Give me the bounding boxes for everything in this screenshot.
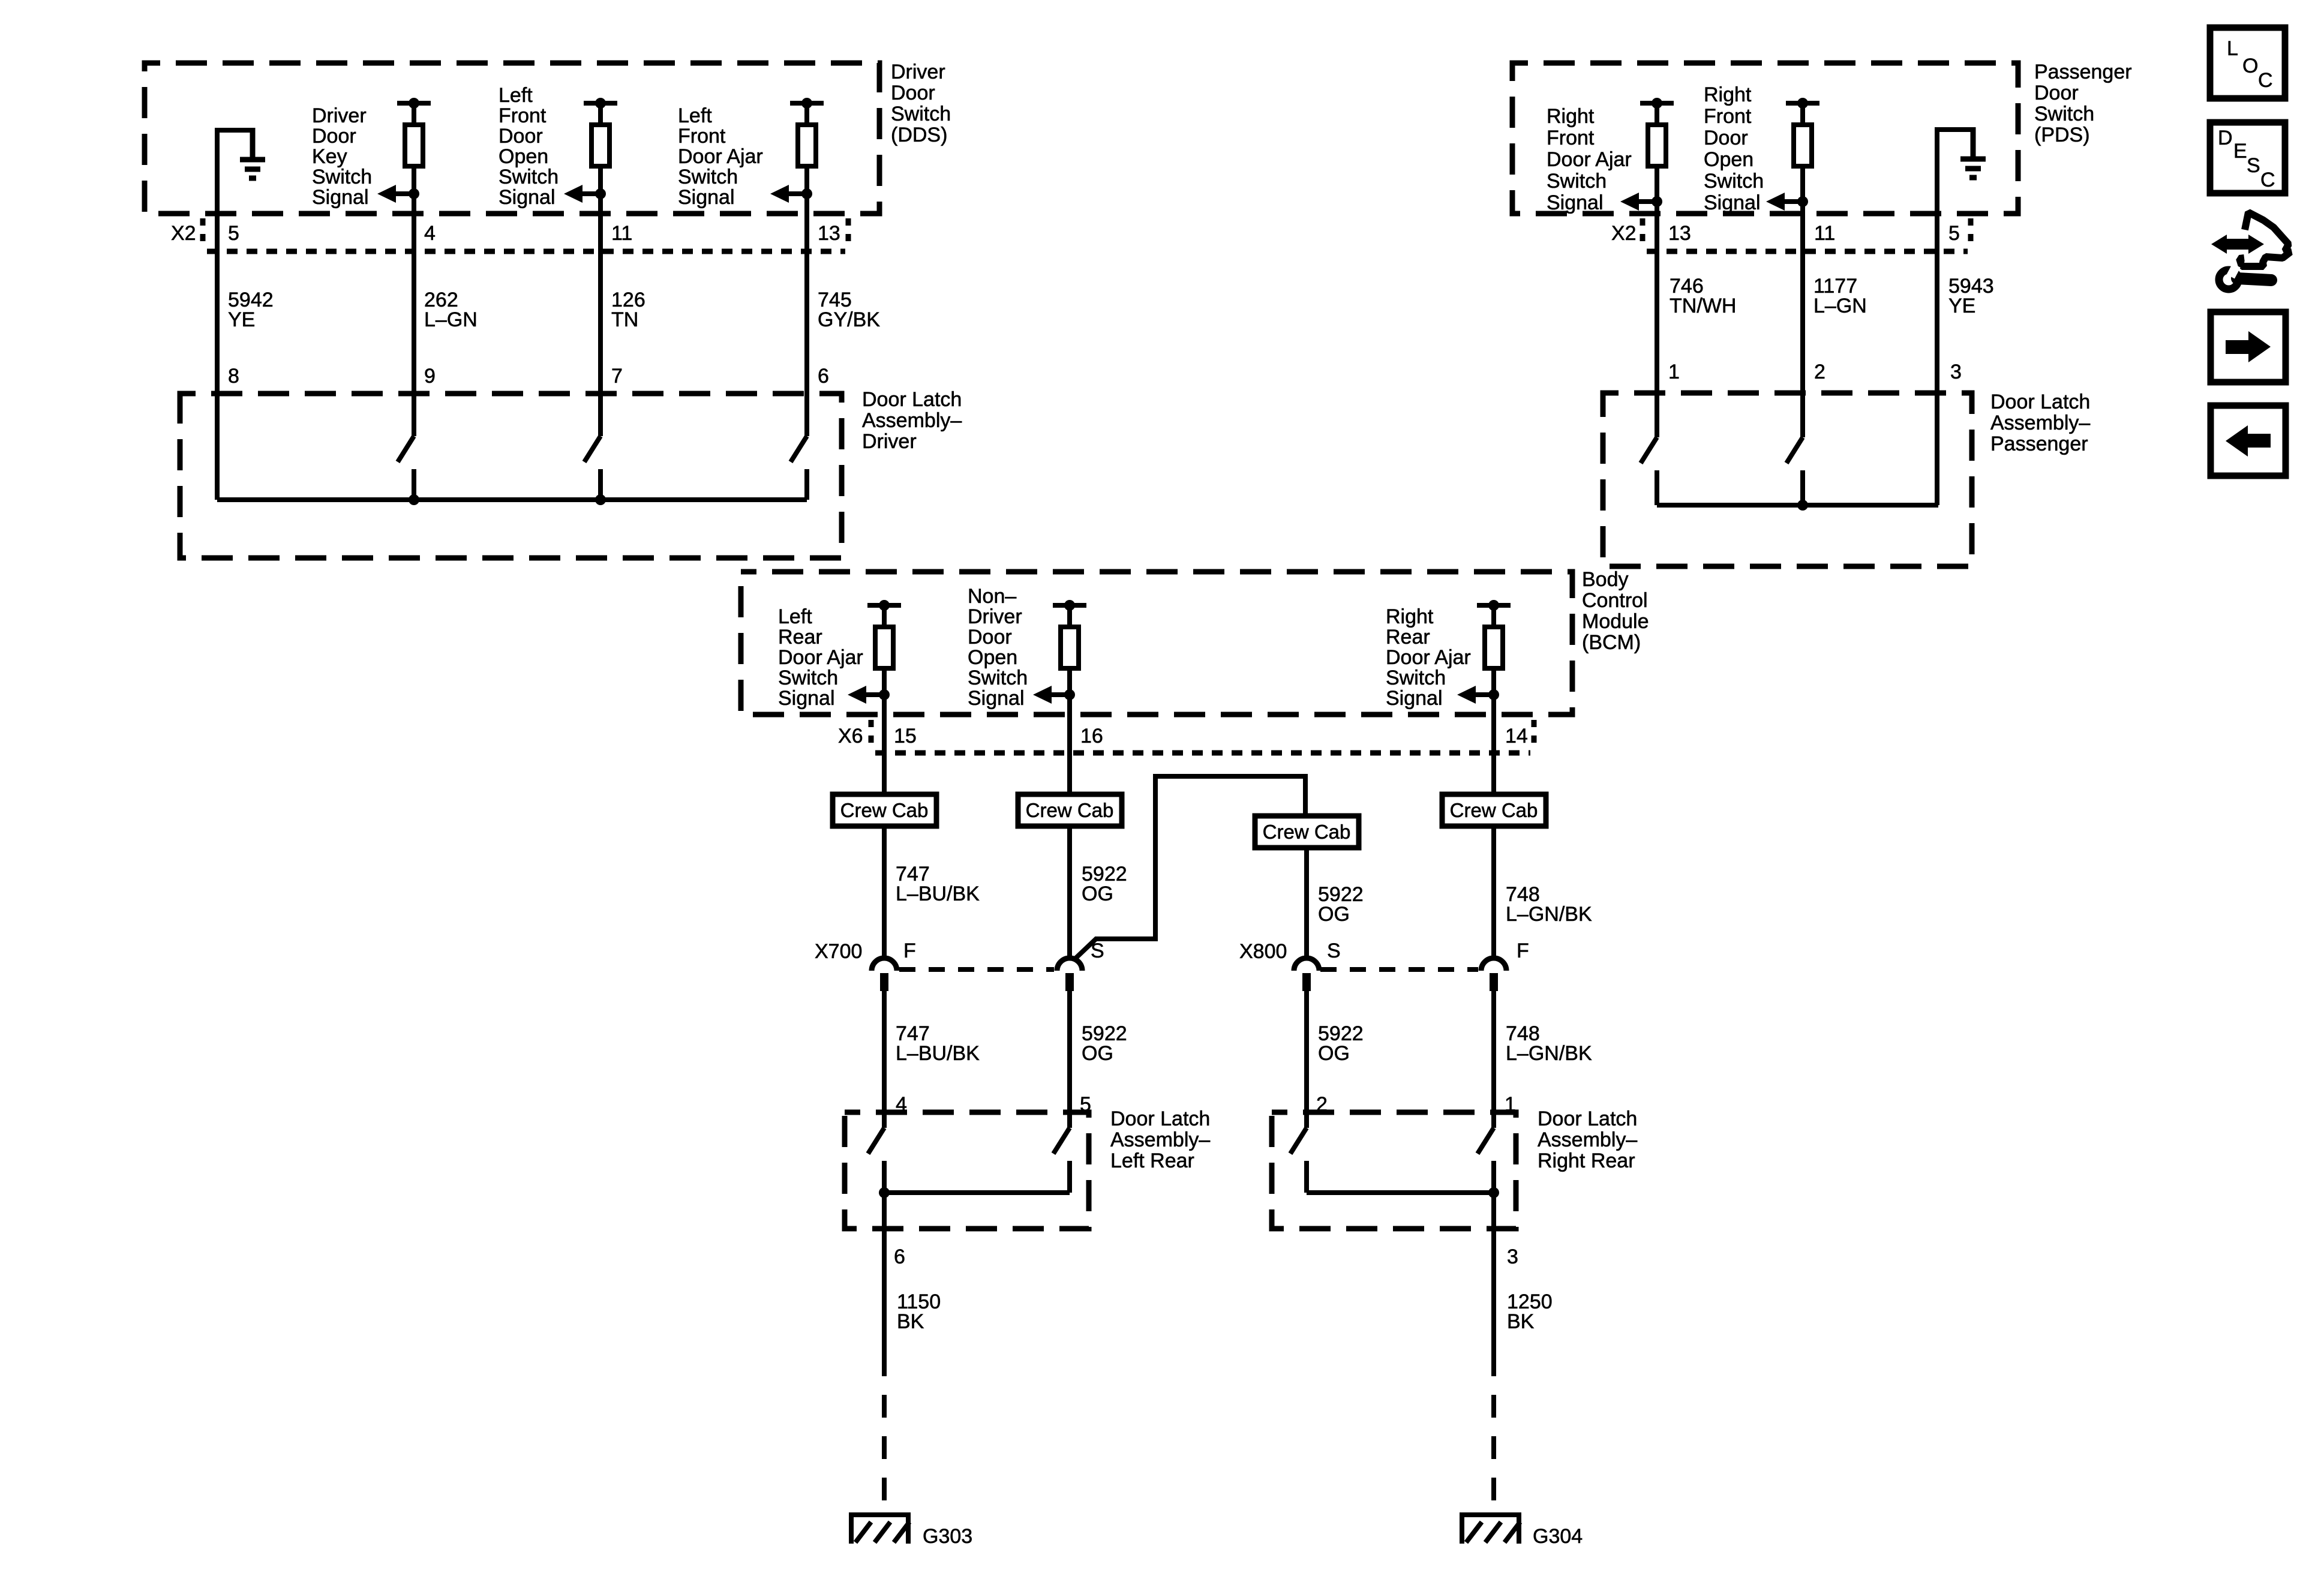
connector X800 dashed link	[1320, 967, 1478, 972]
wire BCM pin 15 down	[882, 667, 887, 794]
pin 5 left rear latch	[1080, 1093, 1091, 1116]
Door Latch Assembly-Passenger box	[1603, 393, 1972, 566]
svg-text:Switch: Switch	[678, 166, 738, 188]
switch left front door open	[584, 436, 600, 500]
resistor right front door open switch	[1786, 98, 1819, 166]
pin S X700	[1091, 939, 1104, 962]
bus left rear latch	[884, 1190, 1070, 1195]
label wire 1250 BK	[1507, 1290, 1553, 1333]
label wire 5922 OG right	[1318, 883, 1364, 926]
resistor driver door key switch	[397, 98, 431, 166]
svg-text:C: C	[2260, 169, 2275, 191]
svg-text:Right: Right	[1547, 105, 1595, 128]
label Driver Door Switch (DDS)	[891, 61, 951, 146]
Crew Cab box 4	[1442, 794, 1546, 826]
ground G303	[849, 1515, 911, 1544]
svg-text:Crew Cab: Crew Cab	[1263, 821, 1351, 843]
junction left rear latch bus	[879, 1187, 890, 1198]
svg-text:BK: BK	[897, 1310, 924, 1333]
arrow right rear door ajar switch signal	[1457, 686, 1499, 704]
pin 6 driver latch	[818, 365, 829, 388]
arrow left front door ajar switch signal	[770, 185, 812, 203]
svg-text:F: F	[1517, 939, 1529, 962]
Crew Cab box 1	[833, 794, 936, 826]
svg-text:BK: BK	[1507, 1310, 1535, 1333]
svg-text:F: F	[903, 939, 916, 962]
Crew Cab box 2	[1018, 794, 1122, 826]
svg-text:Assembly–: Assembly–	[1110, 1128, 1210, 1151]
svg-text:G304: G304	[1533, 1525, 1583, 1548]
legend icon arrow left	[2211, 406, 2286, 476]
svg-text:X6: X6	[838, 725, 863, 748]
label connector X2 passenger	[1611, 222, 1637, 245]
svg-text:Switch: Switch	[1386, 667, 1446, 689]
svg-text:Door Ajar: Door Ajar	[1386, 646, 1471, 669]
svg-text:Rear: Rear	[778, 626, 822, 649]
label Left Front Door Open Switch Signal	[499, 84, 559, 209]
junction right rear latch bus	[1488, 1187, 1499, 1198]
svg-text:Open: Open	[499, 145, 548, 168]
svg-text:Rear: Rear	[1386, 626, 1430, 649]
arrow non-driver door open switch signal	[1033, 686, 1075, 704]
svg-text:Passenger: Passenger	[2034, 61, 2132, 83]
svg-text:Switch: Switch	[1704, 170, 1764, 193]
svg-text:Door Ajar: Door Ajar	[678, 145, 763, 168]
svg-text:X2: X2	[1611, 222, 1637, 245]
pin S X800	[1327, 939, 1341, 962]
label wire 747 L-BU/BK lower	[896, 1022, 980, 1065]
wire pin 5 PDS to ground jog	[1935, 130, 1939, 505]
arrow left rear door ajar switch signal	[848, 686, 890, 704]
label wire 5943 YE	[1948, 275, 1994, 317]
pin 3 passenger latch	[1950, 361, 1962, 383]
switch left rear door ajar	[868, 1128, 884, 1193]
label wire 1177 L-GN	[1813, 275, 1867, 317]
pin F X800	[1517, 939, 1529, 962]
label wire 746 TN/WH	[1670, 275, 1736, 317]
svg-text:8: 8	[228, 365, 239, 388]
svg-text:Switch: Switch	[891, 103, 951, 125]
svg-text:O: O	[2242, 55, 2258, 77]
legend icon arrow right	[2211, 312, 2286, 382]
svg-text:3: 3	[1507, 1245, 1518, 1268]
svg-text:L–GN/BK: L–GN/BK	[1506, 903, 1592, 926]
label Door Latch Assembly-Left Rear	[1110, 1107, 1210, 1172]
wire PDS ground jog horizontal	[1935, 127, 1973, 132]
svg-text:Front: Front	[1547, 127, 1595, 149]
svg-text:Front: Front	[678, 125, 726, 148]
label wire 5922 OG lower right	[1318, 1022, 1364, 1065]
svg-text:S: S	[1091, 939, 1104, 962]
ground symbol PDS	[1960, 127, 1986, 178]
resistor left front door ajar switch	[790, 98, 824, 166]
svg-text:X700: X700	[815, 940, 862, 963]
svg-text:OG: OG	[1082, 882, 1113, 905]
label Body Control Module (BCM)	[1582, 568, 1649, 654]
wire branch 5922 OG from X700 S to Crew Cab 3	[1073, 776, 1305, 960]
label Passenger Door Switch (PDS)	[2034, 61, 2132, 146]
wire 748 crew cab to X800 F	[1491, 826, 1496, 958]
pin F X700	[903, 939, 916, 962]
svg-text:D: D	[2218, 127, 2233, 149]
svg-text:L: L	[2227, 37, 2238, 60]
svg-text:L–GN: L–GN	[424, 308, 478, 331]
svg-text:11: 11	[611, 222, 632, 245]
arrow right front door ajar switch signal	[1620, 193, 1662, 211]
pin 7	[611, 365, 623, 388]
label connector X800	[1239, 940, 1287, 963]
switch right front door ajar	[1641, 437, 1657, 505]
svg-text:Assembly–: Assembly–	[1990, 412, 2090, 434]
resistor left front door open switch	[584, 98, 617, 166]
connector X2 dotted line driver	[207, 249, 845, 254]
switch driver door key	[398, 436, 414, 500]
svg-text:Door Latch: Door Latch	[1990, 391, 2090, 413]
svg-text:Driver: Driver	[891, 61, 945, 83]
svg-text:Left: Left	[499, 84, 533, 107]
svg-text:Door Latch: Door Latch	[1110, 1107, 1210, 1130]
label Door Latch Assembly-Passenger	[1990, 391, 2090, 455]
connector X800 pin S	[1294, 958, 1319, 991]
Door Latch Assembly-Right Rear box	[1272, 1112, 1516, 1229]
svg-text:5: 5	[228, 222, 239, 245]
svg-text:Switch: Switch	[778, 667, 838, 689]
pin 13	[818, 222, 840, 245]
svg-text:OG: OG	[1318, 903, 1350, 926]
connector X800 pin F	[1481, 958, 1506, 991]
label Right Front Door Open Switch Signal	[1704, 83, 1764, 214]
pin 4	[424, 222, 436, 245]
connector X700 dashed link	[899, 967, 1054, 972]
switch right rear door ajar	[1478, 1128, 1494, 1193]
svg-text:Right: Right	[1704, 83, 1752, 106]
svg-text:Signal: Signal	[312, 186, 369, 209]
legend icon DESC	[2210, 122, 2285, 193]
resistor non-driver door open switch	[1053, 600, 1086, 668]
svg-text:Left: Left	[778, 605, 812, 628]
svg-text:Body: Body	[1582, 568, 1629, 591]
svg-text:Assembly–: Assembly–	[1538, 1128, 1637, 1151]
pin 5	[228, 222, 239, 245]
svg-text:Open: Open	[1704, 148, 1753, 171]
svg-text:Assembly–: Assembly–	[862, 409, 962, 432]
svg-text:Driver: Driver	[968, 605, 1022, 628]
svg-text:Switch: Switch	[1547, 170, 1607, 193]
svg-text:Driver: Driver	[312, 104, 367, 127]
svg-text:Crew Cab: Crew Cab	[1026, 799, 1114, 821]
label wire 745 GY/BK	[818, 289, 880, 331]
label G303	[923, 1525, 972, 1548]
junction driver latch bus at 1001	[595, 494, 606, 505]
svg-text:X800: X800	[1239, 940, 1287, 963]
wire BCM pin 16 down	[1067, 667, 1072, 794]
svg-text:G303: G303	[923, 1525, 972, 1548]
bracket X2 left	[200, 218, 206, 250]
switch left front door ajar	[791, 436, 807, 500]
BCM box (Body Control Module)	[741, 572, 1572, 715]
svg-text:C: C	[2258, 69, 2273, 92]
svg-text:Door Latch: Door Latch	[862, 388, 962, 411]
arrow left front door open switch signal	[564, 185, 606, 203]
pin 14	[1505, 725, 1528, 748]
svg-text:Right Rear: Right Rear	[1538, 1149, 1635, 1172]
wire 747 crew cab to X700 F	[882, 826, 887, 958]
svg-text:Non–: Non–	[968, 585, 1016, 608]
svg-text:Signal: Signal	[678, 186, 735, 209]
switch right rear door ajar right	[1290, 1128, 1307, 1193]
svg-text:(DDS): (DDS)	[891, 124, 947, 146]
svg-text:15: 15	[894, 725, 917, 748]
bracket X2 right	[846, 218, 851, 250]
svg-text:Switch: Switch	[2034, 103, 2094, 125]
pin 4 left rear latch	[896, 1093, 907, 1116]
pin 2 passenger latch	[1814, 361, 1825, 383]
svg-text:Switch: Switch	[499, 166, 559, 188]
svg-text:S: S	[2247, 154, 2260, 177]
pin 11 passenger	[1814, 222, 1835, 245]
label Non-Driver Door Open Switch Signal	[968, 585, 1028, 710]
svg-text:Passenger: Passenger	[1990, 433, 2088, 455]
svg-text:Door: Door	[968, 626, 1012, 649]
svg-text:OG: OG	[1318, 1042, 1350, 1065]
bracket X2 passenger right	[1968, 218, 1974, 250]
svg-text:Door: Door	[891, 82, 935, 104]
label connector X700	[815, 940, 862, 963]
label Left Rear Door Ajar Switch Signal	[778, 605, 863, 710]
wire 5922 X700 to left rear latch pin 5	[1067, 991, 1072, 1128]
svg-text:Signal: Signal	[968, 687, 1025, 710]
wire 748 X800 to right rear latch pin 1	[1491, 991, 1496, 1128]
switch non-driver door open left	[1053, 1128, 1070, 1193]
connector X2 dotted line passenger	[1647, 249, 1968, 254]
label Right Rear Door Ajar Switch Signal	[1386, 605, 1471, 710]
svg-text:Signal: Signal	[778, 687, 835, 710]
switch right front door open	[1786, 437, 1803, 505]
label G304	[1533, 1525, 1583, 1548]
label wire 5942 YE	[228, 289, 274, 331]
svg-text:4: 4	[424, 222, 436, 245]
label wire 748 L-GN/BK lower	[1506, 1022, 1592, 1065]
svg-text:GY/BK: GY/BK	[818, 308, 880, 331]
svg-text:Door: Door	[499, 125, 543, 148]
svg-text:(BCM): (BCM)	[1582, 631, 1641, 654]
svg-text:Open: Open	[968, 646, 1017, 669]
wire resistor to latch pin 7	[598, 164, 603, 436]
label Left Front Door Ajar Switch Signal	[678, 104, 763, 209]
label Door Latch Assembly-Right Rear	[1538, 1107, 1637, 1172]
bracket X2 passenger left	[1640, 218, 1646, 250]
svg-text:(PDS): (PDS)	[2034, 124, 2090, 146]
svg-text:6: 6	[818, 365, 829, 388]
pin 11	[611, 222, 632, 245]
svg-text:9: 9	[424, 365, 436, 388]
bus passenger latch	[1657, 503, 1938, 508]
pin 13 passenger	[1668, 222, 1691, 245]
svg-text:OG: OG	[1082, 1042, 1113, 1065]
svg-text:Crew Cab: Crew Cab	[840, 799, 929, 821]
wire 5922 crew cab to X700 S	[1067, 826, 1072, 958]
svg-text:7: 7	[611, 365, 623, 388]
svg-text:13: 13	[1668, 222, 1691, 245]
pin 5 passenger	[1948, 222, 1960, 245]
bracket X6 right	[1532, 720, 1537, 751]
wire BCM pin 14 down	[1491, 667, 1496, 794]
svg-text:X2: X2	[171, 222, 196, 245]
svg-text:Door: Door	[1704, 127, 1748, 149]
svg-text:Right: Right	[1386, 605, 1434, 628]
svg-text:TN: TN	[611, 308, 638, 331]
bracket X6 left	[869, 720, 874, 751]
svg-text:1: 1	[1668, 361, 1680, 383]
svg-text:5: 5	[1948, 222, 1960, 245]
svg-text:Door: Door	[2034, 82, 2079, 104]
label wire 748 L-GN/BK	[1506, 883, 1592, 926]
pin 3 right rear latch	[1507, 1245, 1518, 1268]
Door Latch Assembly-Left Rear box	[845, 1112, 1089, 1229]
wire 5922 X800 to right rear latch pin 2	[1304, 991, 1309, 1128]
svg-text:Switch: Switch	[968, 667, 1028, 689]
Door Latch Assembly-Driver box	[180, 394, 842, 558]
svg-text:YE: YE	[1948, 295, 1975, 317]
pin 1 passenger latch	[1668, 361, 1680, 383]
wire left rear latch pin 6 down	[882, 1193, 887, 1376]
junction passenger latch bus	[1797, 500, 1808, 511]
svg-text:13: 13	[818, 222, 840, 245]
svg-text:Door Ajar: Door Ajar	[778, 646, 863, 669]
arrow right front door open switch signal	[1766, 193, 1808, 211]
wire resistor to latch pin 9	[412, 164, 416, 436]
wire resistor to latch pin 1	[1655, 164, 1659, 437]
wire 1250 BK dashed to G304	[1491, 1395, 1496, 1515]
label Driver Door Key Switch Signal	[312, 104, 372, 209]
Crew Cab box 3 (branch)	[1255, 816, 1359, 848]
resistor right rear door ajar switch	[1477, 600, 1511, 668]
svg-text:Front: Front	[499, 104, 547, 127]
svg-text:16: 16	[1080, 725, 1103, 748]
svg-text:Signal: Signal	[1386, 687, 1443, 710]
arrow driver door key switch signal	[377, 185, 419, 203]
svg-text:3: 3	[1950, 361, 1962, 383]
svg-text:Key: Key	[312, 145, 347, 168]
pin 2 right rear latch	[1316, 1093, 1328, 1116]
wire 1150 BK dashed to G303	[882, 1395, 887, 1515]
resistor left rear door ajar switch	[867, 600, 901, 668]
bus driver latch	[217, 497, 807, 502]
svg-text:E: E	[2233, 140, 2247, 163]
pin 15	[894, 725, 917, 748]
label wire 747 L-BU/BK	[896, 863, 980, 905]
svg-text:Door Latch: Door Latch	[1538, 1107, 1637, 1130]
svg-text:L–BU/BK: L–BU/BK	[896, 882, 980, 905]
wire pin5 to ground jog	[215, 130, 220, 500]
svg-text:L–GN/BK: L–GN/BK	[1506, 1042, 1592, 1065]
svg-text:2: 2	[1814, 361, 1825, 383]
svg-text:Left: Left	[678, 104, 712, 127]
svg-text:Module: Module	[1582, 610, 1649, 633]
svg-text:11: 11	[1814, 222, 1835, 245]
wire crew cab 3 to X800 S	[1304, 848, 1309, 958]
bus right rear latch	[1307, 1190, 1494, 1195]
connector X700 pin S	[1057, 958, 1082, 991]
pin 8	[228, 365, 239, 388]
legend icon component view (arrow and wrench)	[2211, 212, 2290, 289]
pin 16	[1080, 725, 1103, 748]
svg-text:Crew Cab: Crew Cab	[1450, 799, 1538, 821]
svg-text:YE: YE	[228, 308, 255, 331]
pin 1 right rear latch	[1505, 1093, 1516, 1116]
DDS box (Driver Door Switch)	[145, 63, 879, 214]
svg-text:L–BU/BK: L–BU/BK	[896, 1042, 980, 1065]
label Right Front Door Ajar Switch Signal	[1547, 105, 1632, 214]
pin 9	[424, 365, 436, 388]
svg-text:Door Ajar: Door Ajar	[1547, 148, 1632, 171]
label connector X6	[838, 725, 863, 748]
svg-text:Signal: Signal	[1704, 191, 1761, 214]
svg-text:Signal: Signal	[499, 186, 556, 209]
label connector X2 driver	[171, 222, 196, 245]
legend icon LOC	[2210, 28, 2285, 98]
wire right rear latch pin 3 down	[1491, 1193, 1496, 1376]
ground G304	[1460, 1515, 1521, 1544]
svg-text:Signal: Signal	[1547, 191, 1604, 214]
wire resistor to latch pin 2	[1800, 164, 1805, 437]
svg-text:6: 6	[894, 1245, 905, 1268]
wire ground jog horizontal	[215, 128, 253, 133]
label wire 5922 OG left	[1082, 863, 1127, 905]
PDS box (Passenger Door Switch)	[1512, 63, 2018, 214]
svg-text:Left Rear: Left Rear	[1110, 1149, 1194, 1172]
svg-text:Driver: Driver	[862, 430, 917, 453]
connector X700 pin F	[872, 958, 897, 991]
wire 747 X700 to left rear latch pin 4	[882, 991, 887, 1128]
resistor right front door ajar switch	[1640, 98, 1674, 166]
svg-text:L–GN: L–GN	[1813, 295, 1867, 317]
svg-text:Switch: Switch	[312, 166, 372, 188]
ground symbol DDS	[240, 128, 265, 178]
label wire 5922 OG lower left	[1082, 1022, 1127, 1065]
svg-text:S: S	[1327, 939, 1341, 962]
svg-text:14: 14	[1505, 725, 1528, 748]
label wire 262 L-GN	[424, 289, 478, 331]
connector X6 dotted line	[875, 751, 1530, 756]
svg-text:Front: Front	[1704, 105, 1752, 128]
svg-text:TN/WH: TN/WH	[1670, 295, 1736, 317]
label Door Latch Assembly-Driver	[862, 388, 962, 453]
wire resistor to latch pin 6	[804, 164, 809, 436]
junction driver latch bus at 690	[409, 494, 419, 505]
svg-text:Control: Control	[1582, 589, 1648, 612]
label wire 1150 BK	[897, 1290, 941, 1333]
svg-text:Door: Door	[312, 125, 356, 148]
label wire 126 TN	[611, 289, 645, 331]
pin 6 left rear latch	[894, 1245, 905, 1268]
